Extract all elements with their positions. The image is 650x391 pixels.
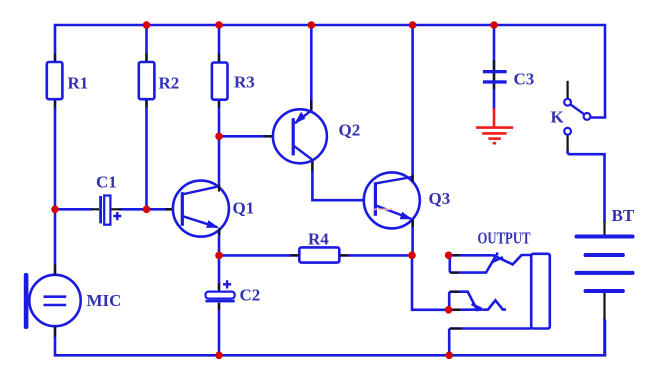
svg-text:R1: R1 <box>68 73 89 92</box>
svg-text:OUTPUT: OUTPUT <box>478 229 531 248</box>
svg-text:K: K <box>551 108 565 127</box>
svg-text:Q2: Q2 <box>339 121 361 140</box>
svg-text:Q1: Q1 <box>233 199 255 218</box>
svg-text:MIC: MIC <box>87 291 122 310</box>
svg-text:C1: C1 <box>96 173 117 192</box>
svg-text:BT: BT <box>612 206 635 225</box>
svg-text:C3: C3 <box>514 70 535 89</box>
svg-text:Q3: Q3 <box>429 189 451 208</box>
svg-text:R2: R2 <box>159 74 180 93</box>
svg-text:R3: R3 <box>234 73 255 92</box>
svg-text:C2: C2 <box>240 286 261 305</box>
svg-text:R4: R4 <box>308 230 329 249</box>
